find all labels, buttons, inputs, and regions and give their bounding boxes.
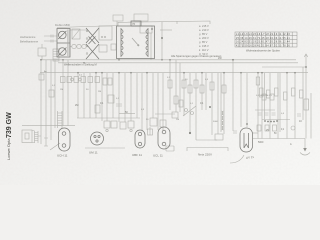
svg-text:2M: 2M: [75, 104, 78, 107]
svg-text:Hochantenne: Hochantenne: [20, 35, 36, 39]
svg-text:Behelfsantenne: Behelfsantenne: [20, 40, 39, 44]
svg-text:L1.L2.L3.L4.L5.L6.L7.L8.L9.10.: L1.L2.L3.L4.L5.L6.L7.L8.L9.10.11.12.13: [236, 34, 290, 36]
svg-text:a 215 V: a 215 V: [199, 24, 209, 28]
svg-text:UCH 11: UCH 11: [57, 154, 68, 158]
svg-text:U 50 V: U 50 V: [199, 52, 208, 56]
svg-text:a 210 V: a 210 V: [199, 28, 209, 32]
svg-text:Loewe Opta: Loewe Opta: [6, 138, 11, 160]
svg-text:76: 76: [132, 22, 136, 26]
svg-text:5000: 5000: [258, 141, 264, 144]
svg-text:g 85 V: g 85 V: [199, 32, 208, 36]
svg-text:Alle Spannungen gegen Chassis: Alle Spannungen gegen Chassis gemessen: [171, 54, 222, 58]
svg-text:UM 11: UM 11: [89, 151, 98, 155]
svg-text:UBF 11: UBF 11: [132, 153, 142, 157]
svg-text:1M: 1M: [176, 119, 179, 121]
svg-text:Widerstandswerte der Spulen: Widerstandswerte der Spulen: [246, 49, 281, 53]
svg-text:g 85 V: g 85 V: [199, 40, 208, 44]
svg-text:5000: 5000: [213, 121, 219, 123]
svg-text:a 195 V: a 195 V: [199, 44, 209, 48]
svg-text:Wellenschalter in Stellung M: Wellenschalter in Stellung M: [64, 62, 97, 66]
svg-text:Drehko 2x500: Drehko 2x500: [55, 24, 71, 27]
svg-text:16.24.83.51.19.23.61.47.35.28.: 16.24.83.51.19.23.61.47.35.28.96.12.44: [236, 42, 291, 44]
svg-text:Netz 220V: Netz 220V: [198, 153, 212, 157]
svg-text:2M: 2M: [98, 91, 101, 93]
svg-text:0,1 5000 2M 0,5: 0,1 5000 2M 0,5: [256, 95, 273, 97]
svg-text:a 200 V: a 200 V: [199, 36, 209, 40]
svg-text:739 GW: 739 GW: [6, 112, 13, 138]
svg-text:42.73.59.16.28.43.21.64.87.32.: 42.73.59.16.28.43.21.64.87.32.15.78.36: [236, 45, 291, 47]
svg-text:1M: 1M: [60, 89, 63, 91]
svg-text:UCL 11: UCL 11: [153, 154, 163, 158]
svg-text:25.38.14.26.31.72.45.18.92.36.: 25.38.14.26.31.72.45.18.92.36.14.55.21: [236, 38, 291, 40]
svg-text:k 110 V: k 110 V: [199, 48, 209, 52]
